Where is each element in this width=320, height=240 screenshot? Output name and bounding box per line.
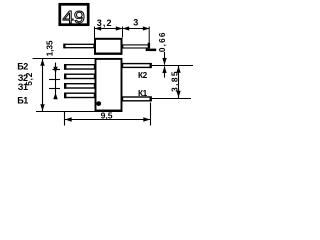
svg-text:Б2: Б2: [17, 61, 28, 71]
svg-text:3: 3: [133, 18, 138, 28]
top view right lead foot: [146, 49, 157, 52]
top view left lead: [64, 44, 94, 47]
svg-text:К2: К2: [138, 70, 148, 80]
top view right lead: [123, 45, 149, 48]
arrows at middle extension: [116, 26, 123, 30]
lead K1 thin wire: [152, 98, 191, 100]
svg-text:1,35: 1,35: [46, 40, 55, 56]
lead K2 end cap: [150, 63, 152, 68]
left lead 2 end cap: [64, 74, 66, 80]
svg-text:0,66: 0,66: [157, 31, 167, 52]
lead K1: [123, 97, 152, 101]
left lead 3 end cap: [64, 83, 66, 89]
top view body: [95, 39, 122, 54]
bottom dim extension right: [150, 103, 152, 126]
tick lead3 bottom: [49, 88, 60, 90]
lead gap dimension line: [55, 63, 57, 99]
dimension 3,2 extension line left: [94, 27, 96, 39]
lead K2: [123, 64, 152, 68]
top view right lead end cap: [148, 43, 150, 49]
arrow left of 3,2: [95, 26, 102, 30]
dimension 0,66 upper line with down arrow: [164, 52, 166, 65]
arrow down to lead2 top: [53, 67, 57, 74]
dimension line 3,2 and 3: [95, 28, 150, 30]
dimension 3 extension line right: [148, 27, 150, 49]
left lead 1 end cap: [64, 64, 66, 70]
lead K1 end cap: [150, 96, 152, 101]
svg-text:3,85: 3,85: [170, 70, 180, 92]
left lead 1 (B2): [65, 65, 95, 69]
left lead 2 (E2): [65, 74, 95, 78]
dimension line 9,5: [65, 119, 151, 121]
svg-text:49: 49: [63, 7, 86, 27]
bottom dim extension left: [64, 112, 66, 126]
index dot: [96, 101, 101, 106]
svg-text:3,2: 3,2: [97, 18, 113, 28]
dimension line 5,2: [42, 59, 44, 112]
left lead 3 (E1): [65, 84, 95, 88]
left lead 4 (B1): [65, 93, 95, 97]
body bottom extension line: [36, 111, 95, 113]
arrow up to lead4 top: [53, 93, 57, 100]
lead K2 thin wire: [152, 65, 193, 67]
svg-text:5,2: 5,2: [24, 72, 34, 86]
svg-text:К1: К1: [138, 88, 148, 98]
arrow down 5,2: [40, 104, 44, 111]
arrow down 3,85: [176, 91, 180, 98]
svg-text:9,5: 9,5: [101, 110, 113, 120]
arrow right of 3: [143, 26, 150, 30]
arrow up 5,2: [40, 59, 44, 66]
left lead 4 end cap: [64, 93, 66, 99]
body top extension line: [33, 58, 96, 60]
dimension line 3,85: [178, 66, 180, 99]
top view left lead end cap: [63, 44, 65, 49]
dimension extension line middle: [122, 27, 124, 38]
arrow right 9,5: [143, 117, 150, 121]
svg-text:Б1: Б1: [17, 95, 28, 105]
tick lead1 bottom: [53, 69, 61, 71]
arrow left 9,5: [65, 117, 72, 121]
arrow up 3,85: [176, 66, 180, 73]
main view body: [96, 59, 122, 111]
tick lead2 bottom: [49, 79, 60, 81]
main view body bottom thick edge: [95, 110, 123, 112]
dimension 0,66 lower line with up arrow: [164, 66, 166, 77]
top view body bottom thick edge: [94, 53, 123, 55]
figure number box 49: [60, 4, 88, 24]
